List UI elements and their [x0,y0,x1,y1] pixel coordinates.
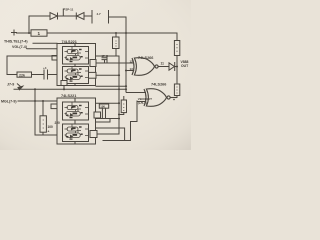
wire pin to net [96,74,119,76]
wire IC1 lower pin run [96,85,126,87]
svg-text:22k: 22k [19,74,25,78]
wire U2 pin 7 staircase [96,128,124,141]
junction dot U4 output [173,99,175,101]
pin boxes U2 [51,104,57,109]
capacitor C1 [92,11,109,24]
resistor R4 [17,72,32,77]
wire RC loop top [7,55,57,57]
monostable D internals [65,125,89,139]
capacitor C2 [44,70,48,79]
svg-text:100: 100 [100,105,105,109]
wire main +V rail [17,32,178,34]
IC U1 74LS221 [52,44,96,86]
diode D1 [50,13,58,20]
resistor R7 vertical [174,84,179,96]
IC U2 74LS221 [51,98,101,144]
R7 value marks [176,86,177,93]
wire drop to gate wire [106,56,108,63]
wire gate feed jog [131,121,138,123]
wire long vertical net [118,56,120,134]
wire R5 stubs [42,101,44,135]
wire top run to D1 [29,15,50,17]
connector arrow J7-9 [17,84,23,90]
capacitor C3 box [99,104,108,108]
svg-text:74LS221: 74LS221 [62,40,77,44]
svg-text:74LS266: 74LS266 [138,56,153,60]
wire D1 to D2 [58,15,77,17]
wire U2 pin 6 jog [96,119,111,123]
svg-text:THIS.TEL(7-4): THIS.TEL(7-4) [4,39,28,43]
gate U4 74LS266 XNOR [126,89,177,107]
diode D3 output [158,63,177,71]
junction dots right nets [118,102,124,119]
svg-text:OUT: OUT [181,64,189,68]
svg-text:220: 220 [55,121,61,125]
wire U2 pin 5 run [96,118,120,120]
resistor R5 vertical [40,116,46,132]
svg-text:J7-9: J7-9 [7,83,14,87]
svg-text:VGL(7-4): VGL(7-4) [12,45,28,49]
wire vertical bus net B [125,17,127,92]
resistor R1 [31,30,47,36]
monostable A internals [65,47,89,61]
wire C1 to bus corner [109,16,127,18]
svg-text:+: + [48,130,50,134]
pin boxes U1 [52,56,57,61]
svg-text:74LS221: 74LS221 [61,94,76,98]
wire left drop [34,89,36,135]
svg-text:V888: V888 [181,60,189,64]
junction dots left nets [34,74,127,128]
wire gate2 output [170,97,177,99]
svg-text:JP-11: JP-11 [66,7,74,11]
svg-text:11: 11 [161,62,165,66]
R3 value marks [176,44,177,52]
wire RC loop left [6,56,8,75]
wire bottom left run [35,134,57,136]
wire right rail net C [176,33,178,98]
svg-text:13: 13 [130,67,134,71]
wire node A vertical [28,16,30,33]
svg-text:74LS266: 74LS266 [151,83,166,87]
svg-text:100: 100 [48,125,54,129]
U2 internal scribble marks [66,105,83,140]
junction dots top [28,32,127,72]
svg-text:+4: +4 [43,66,47,70]
wire bus corner to in1 [125,89,127,92]
paper background [0,0,191,150]
svg-text:1F: 1F [102,54,106,58]
wire MGL feed [18,100,57,102]
wire label THIS.TEL feed [33,42,57,44]
wire U2 pin run [96,102,120,104]
wire bottom run [103,140,131,142]
wire label VGL feed [27,48,57,50]
wire U2 pin 8 run [97,133,119,135]
wire U4 input B riser [136,101,138,122]
wire R4 leads [7,74,44,76]
wire C2 to IC [48,74,58,76]
diode D2 [76,13,84,20]
svg-text:(L/5-1): (L/5-1) [138,101,147,105]
resistor R2 vertical [96,33,120,134]
wire riser to gate feed [130,122,132,141]
capacitor C5 small [102,58,107,63]
wire IC1 bottom pin drop [63,86,65,90]
monostable C internals [65,103,89,117]
wire D2 to C1 [84,15,92,17]
R2 value marks [115,40,116,46]
resistor R3 vertical [174,41,179,56]
svg-text:12: 12 [130,60,134,64]
wires right of U2 [96,97,138,141]
wire R2 bottom jog [96,55,120,57]
U1 internal scribble marks [66,49,83,82]
wire gate2 inputs [126,93,146,102]
node JP-11 stub [63,9,65,16]
gate U3 74LS266 XNOR [96,58,159,76]
svg-text:MGL(7-9): MGL(7-9) [1,100,17,104]
svg-text:4.7: 4.7 [97,12,102,16]
wire mid bus long [14,88,126,90]
wire gate1 inputs [96,63,135,71]
plus terminal input [12,30,17,35]
resistor R6 vertical [121,100,126,113]
monostable B internals [65,67,89,81]
svg-text:1: 1 [38,31,41,36]
